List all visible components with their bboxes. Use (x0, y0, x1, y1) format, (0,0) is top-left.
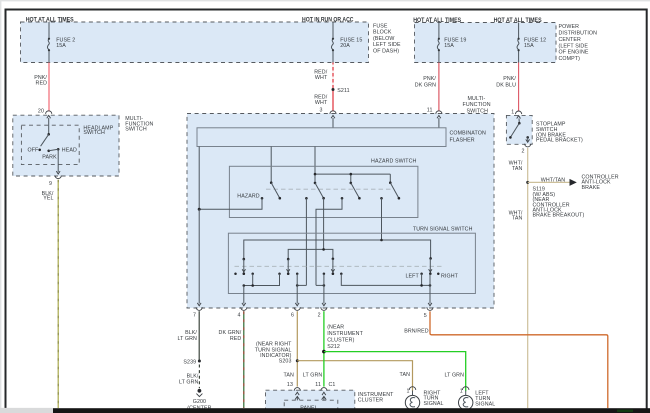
splice S211 (332, 88, 350, 94)
fuse F15 20A (331, 22, 362, 63)
headlamp switch contacts OFF/PARK/HEAD (28, 118, 77, 161)
svg-text:6: 6 (291, 313, 294, 319)
wire PNK/DK GRN fuse19 to pin 11 (415, 63, 439, 112)
RIGHT contact (437, 272, 459, 279)
turn signal mechanical link (235, 265, 445, 267)
svg-text:4: 4 (238, 313, 241, 319)
svg-text:OFF: OFF (28, 147, 40, 153)
hazard arm2 end wire down to H2 (323, 198, 325, 249)
turn signal bus H1 (244, 239, 431, 259)
hazard mechanical link (266, 188, 394, 190)
wire pin5 down to connector (429, 274, 431, 304)
svg-text:15A: 15A (524, 43, 534, 49)
svg-text:C1: C1 (329, 382, 336, 388)
svg-text:11: 11 (427, 107, 433, 113)
svg-text:LT GRN: LT GRN (303, 372, 323, 378)
svg-text:MULTI-: MULTI- (468, 96, 486, 102)
stoplamp pin 1 connector (511, 109, 521, 118)
svg-text:S203: S203 (279, 358, 292, 364)
LEFT contact (405, 272, 422, 279)
svg-text:2: 2 (521, 149, 524, 155)
wire WHT/TAN stoplamp pin2 down to bottom (509, 148, 528, 408)
svg-text:3: 3 (319, 107, 322, 113)
svg-text:TAN: TAN (512, 216, 523, 222)
turn signal arm A (242, 258, 245, 275)
turn signal lower interconnect run A (243, 274, 280, 287)
svg-text:HOT AT ALL TIMES: HOT AT ALL TIMES (413, 17, 461, 24)
wire RED/WHT fuse15 to S211 to flasher pin 3 (314, 63, 333, 112)
wire BLK/LT GRN pin7 to S239 (177, 311, 199, 361)
wire pin6 down to connector (296, 274, 298, 304)
svg-text:S239: S239 (183, 359, 196, 365)
bulb wire labels TAN / LT GRN (400, 372, 465, 378)
combination flasher box (197, 128, 486, 147)
wire BLK/LT GRN S239 to G200 (179, 365, 199, 389)
svg-text:BLK/: BLK/ (187, 373, 199, 379)
svg-text:WHT: WHT (315, 100, 328, 106)
wire DK GRN/RED pin4 to bottom (219, 311, 244, 408)
hazard switch arm 3 (350, 182, 361, 200)
wire TAN S203 to right turn signal bulb (297, 361, 412, 392)
svg-text:HEAD: HEAD (62, 147, 77, 153)
svg-text:COMBINATON: COMBINATON (450, 131, 486, 137)
wire TAN S203 to cluster pin 13 (283, 372, 294, 388)
hazard contact feed to turn signal pin6 path (305, 197, 308, 285)
svg-text:PNK/: PNK/ (423, 76, 436, 82)
svg-text:DK GRN: DK GRN (415, 83, 436, 89)
svg-text:FUNCTION: FUNCTION (463, 102, 491, 108)
turn signal pin2 branch joins (316, 284, 325, 287)
svg-text:20: 20 (38, 108, 44, 114)
turn signal pin6 branch joins (296, 284, 306, 287)
wire pin2 down to connector (323, 274, 325, 304)
ground G200 (187, 389, 211, 412)
wire PNK/RED fuse2 to headlamp switch pin 20 (34, 63, 49, 112)
flasher pin 11 connector (427, 107, 442, 128)
wire WHT/TAN branch to controller anti-lock brake (528, 175, 619, 191)
cluster pin 11 label (303, 372, 336, 388)
turn signal arm B (287, 258, 290, 275)
svg-text:5: 5 (424, 313, 427, 319)
headlamp switch pin 9 connector (49, 149, 61, 187)
fuse F19 15A (437, 23, 466, 63)
wire pin7 bus down to connector (198, 209, 200, 303)
turn signal arm C (331, 258, 334, 276)
stoplamp switch dashed box (506, 115, 583, 144)
svg-text:11: 11 (315, 382, 321, 388)
svg-text:LEFT: LEFT (405, 273, 419, 279)
stoplamp switch contacts (509, 119, 529, 142)
svg-text:HAZARD: HAZARD (237, 193, 259, 199)
left turn signal indicator bulb (459, 387, 496, 410)
pin 6 connector (291, 303, 300, 319)
wire flasher to pin7 bus (198, 147, 200, 210)
svg-text:15A: 15A (56, 43, 66, 49)
fuse block connector box (BELOW LEFT SIDE OF DASH) (21, 17, 401, 63)
wire flasher to hazard feed H3 (314, 147, 316, 183)
svg-text:15A: 15A (444, 43, 454, 49)
svg-text:WHT: WHT (315, 75, 328, 81)
instrument cluster dashed box (266, 390, 395, 413)
svg-text:G200: G200 (193, 399, 206, 405)
svg-text:PARK: PARK (42, 155, 57, 161)
wire flasher to hazard arm1 (270, 147, 272, 183)
svg-text:WHT/TAN: WHT/TAN (541, 177, 566, 183)
svg-text:CLUSTER: CLUSTER (358, 398, 383, 404)
turn signal arm D (429, 257, 432, 275)
hazard contact to pin7 bus branch (198, 197, 264, 211)
hazard switch box (229, 159, 418, 218)
svg-text:9: 9 (49, 181, 52, 187)
multi-function switch main dashed box (187, 96, 494, 308)
svg-text:LT GRN: LT GRN (179, 380, 199, 386)
splice S239 (183, 359, 200, 365)
fuse F12 15A (517, 23, 546, 63)
svg-text:DK GRN/: DK GRN/ (219, 330, 242, 336)
svg-text:HAZARD SWITCH: HAZARD SWITCH (371, 159, 417, 165)
svg-text:TURN SIGNAL SWITCH: TURN SIGNAL SWITCH (413, 227, 473, 233)
power distribution center box (413, 17, 597, 63)
splice S212 (322, 350, 326, 354)
turn signal bus H2 (288, 248, 333, 259)
svg-text:RED: RED (230, 336, 242, 342)
hazard switch arm 2 (314, 182, 325, 200)
wire PNK/DK BLU fuse12 to stoplamp switch pin 1 (496, 63, 518, 112)
svg-text:2: 2 (318, 313, 321, 319)
hazard switch arm 1 (270, 181, 281, 199)
svg-text:LT GRN: LT GRN (445, 372, 465, 378)
wire BLK/YEL headlamp pin 9 to bottom (42, 180, 59, 408)
svg-text:HOT AT ALL TIMES: HOT AT ALL TIMES (494, 17, 542, 24)
svg-text:TAN: TAN (283, 372, 294, 378)
turn signal contact row dots (234, 272, 342, 275)
wire pin4 down to connector (243, 286, 245, 304)
right turn signal indicator bulb (405, 387, 443, 410)
hazard switch arm 4 (389, 181, 400, 199)
svg-text:13: 13 (287, 382, 293, 388)
svg-text:FLASHER: FLASHER (450, 138, 475, 144)
svg-text:DK BLU: DK BLU (496, 83, 516, 89)
pin 5 connector (424, 303, 433, 319)
turn signal lower interconnect run D (341, 274, 431, 287)
splice S203 (296, 359, 299, 362)
splice S119 (526, 181, 584, 219)
svg-text:PNK/: PNK/ (503, 76, 516, 82)
wire LT GRN pin2 to S212 (324, 311, 364, 386)
svg-text:HOT AT ALL TIMES: HOT AT ALL TIMES (26, 17, 74, 24)
pin 4 connector (238, 303, 247, 319)
fuse F2 15A (47, 22, 75, 63)
svg-text:7: 7 (193, 313, 196, 319)
hazard contact wire down to H1 (380, 197, 383, 240)
svg-text:S211: S211 (337, 88, 349, 94)
wire TAN pin6 to S203 (255, 311, 298, 386)
svg-text:1: 1 (511, 109, 514, 115)
headlamp switch pin 20 connector (38, 108, 52, 118)
svg-text:SWITCH: SWITCH (83, 130, 105, 136)
hazard feed bus H3 (314, 173, 391, 183)
wire BRN/RED pin5 to bottom right (404, 311, 608, 408)
cluster pin 13 connector (294, 388, 300, 401)
pin 7 connector (193, 303, 202, 319)
svg-text:TAN: TAN (512, 166, 523, 172)
svg-text:RED: RED (36, 81, 48, 87)
svg-text:HOT IN RUN OR ACC: HOT IN RUN OR ACC (302, 17, 354, 24)
turn signal switch box (228, 227, 475, 294)
svg-text:LT GRN: LT GRN (177, 336, 197, 342)
svg-text:SWITCH: SWITCH (467, 108, 489, 114)
headlamp switch (multi-function switch) dashed box (13, 115, 154, 176)
stoplamp pin 2 connector (521, 139, 530, 154)
wire LT GRN S212 to left turn signal bulb (324, 352, 466, 392)
svg-text:BRN/RED: BRN/RED (404, 329, 429, 335)
svg-text:YEL: YEL (43, 196, 53, 202)
pin 2 connector (318, 303, 327, 319)
cluster pin 11 connector (321, 388, 327, 401)
hazard contact jog wire to turn signal pin2 path (316, 197, 343, 285)
svg-text:RIGHT: RIGHT (441, 273, 459, 279)
svg-text:20A: 20A (340, 43, 350, 49)
svg-text:BLK/: BLK/ (185, 330, 197, 336)
svg-text:TAN: TAN (400, 372, 411, 378)
flasher pin 3 connector (319, 107, 336, 128)
